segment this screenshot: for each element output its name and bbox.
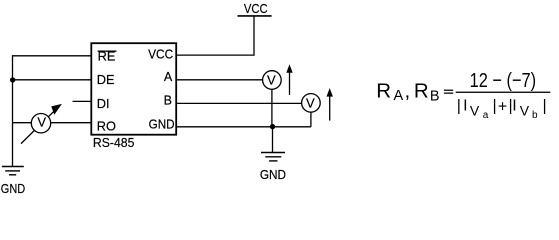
svg-text:V: V (520, 102, 530, 118)
formula: denominator |IVa| + |IVb| (457, 97, 547, 121)
svg-text:B: B (164, 94, 172, 108)
svg-text:RO: RO (97, 119, 116, 133)
svg-text:R: R (414, 80, 429, 103)
svg-text:a: a (483, 110, 489, 121)
svg-text:12 − (−7): 12 − (−7) (470, 69, 536, 92)
svg-text:DI: DI (97, 97, 110, 111)
svg-text:GND: GND (260, 167, 286, 182)
ground: GND symbol middle (260, 153, 286, 183)
svg-text:VCC: VCC (244, 1, 268, 16)
svg-text:V: V (37, 114, 46, 129)
svg-text:DE: DE (97, 73, 115, 87)
svg-text:A: A (164, 70, 173, 84)
svg-text:R: R (376, 80, 391, 103)
svg-text:+: + (498, 98, 507, 115)
svg-text:V: V (306, 95, 315, 110)
wire: A output to voltmeter Va (176, 79, 263, 81)
svg-text:b: b (532, 110, 538, 121)
svg-text:V: V (470, 102, 480, 118)
svg-text:I: I (512, 97, 516, 114)
svg-text:GND: GND (1, 181, 25, 196)
svg-text:GND: GND (149, 117, 175, 131)
wire: DI stub (73, 100, 92, 102)
wire: left vertical rail (12, 55, 14, 166)
formula: fraction bar (456, 92, 551, 93)
svg-text:I: I (463, 97, 467, 114)
svg-text:|: | (457, 97, 461, 114)
wire: stub down to ground symbol (272, 127, 274, 153)
wire: Vb to ground net vertical (310, 112, 312, 127)
arrow: current direction Ivb (327, 88, 333, 121)
arrow: current direction Iva (286, 64, 292, 95)
wire: DE input from rail to IC (13, 79, 92, 81)
pin label RE (active low, overline) (98, 50, 117, 64)
wire: RE input from left rail to IC (13, 55, 92, 57)
svg-text:|: | (493, 97, 497, 114)
formula: equals sign (444, 90, 453, 91)
node: junction dot at ground net (270, 124, 275, 129)
svg-text:|: | (543, 97, 547, 114)
wire: VCC pin to VCC supply symbol (176, 16, 254, 55)
voltmeter V1 (RO) diagonal arrow (21, 105, 61, 144)
voltmeter V1 on RO (31, 114, 50, 133)
wire: GND pin net to Vb (176, 126, 311, 128)
svg-text:VCC: VCC (148, 48, 173, 62)
svg-text:V: V (267, 73, 276, 88)
power symbol: VCC bar (238, 15, 272, 17)
svg-text:RS-485: RS-485 (93, 136, 135, 150)
wire: RO output through voltmeter to rail (13, 122, 92, 124)
voltmeter Vb on line B (302, 94, 321, 113)
node: junction dot at DE / rail (10, 77, 15, 82)
formula: RA, RB = (12-(-7)) / (|IVa|+|IVb|) (376, 69, 550, 121)
RS-485 transceiver U1 body (91, 43, 176, 135)
svg-text:,: , (405, 80, 411, 103)
svg-text:B: B (430, 89, 440, 105)
wire: Va to ground net vertical (271, 89, 273, 127)
ground: GND symbol bottom-left (1, 167, 25, 197)
svg-text:A: A (394, 88, 404, 104)
wire: B output to voltmeter Vb (176, 102, 302, 104)
voltmeter Va on line A (263, 71, 282, 90)
